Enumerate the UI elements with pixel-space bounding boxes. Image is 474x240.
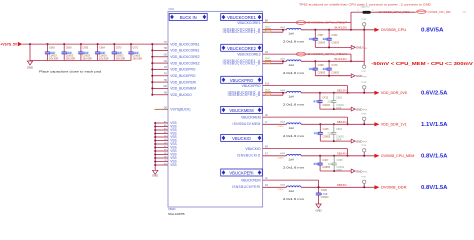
svg-text:TP57: TP57: [361, 71, 367, 73]
header VBUCKPRO: [221, 76, 263, 83]
wire cap ground rail: [320, 108, 349, 110]
svg-text:K7: K7: [265, 153, 269, 156]
pin E5 VSS: [154, 146, 176, 150]
svg-text:OV0008_CPU_FB1N: OV0008_CPU_FB1N: [307, 53, 347, 56]
svg-text:TP56: TP56: [361, 19, 367, 21]
svg-text:ISNSBUCKCORE2_B: ISNSBUCKCORE2_B: [223, 62, 261, 66]
svg-text:TP57: TP57: [363, 76, 367, 78]
svg-text:TP59: TP59: [361, 114, 367, 116]
node SB13N: [337, 120, 347, 124]
node BUK12N: [334, 57, 346, 61]
wire inductor output: [301, 155, 374, 157]
pin name ISNSBUCKCORE2_B: [223, 62, 261, 66]
wire VBUCKIO sense: [263, 146, 348, 149]
svg-text:VSYS(BUCK): VSYS(BUCK): [170, 108, 190, 112]
capacitor C468: [309, 60, 326, 75]
svg-text:2.0x1.6 mm: 2.0x1.6 mm: [283, 166, 305, 170]
test point TP61: [361, 177, 367, 189]
wire phase join: [363, 30, 365, 62]
svg-text:OV0008_CPU_FB1P: OV0008_CPU_FB1P: [307, 22, 348, 25]
svg-text:VBUCKPRO: VBUCKPRO: [242, 84, 261, 88]
resistor shunt R611: [265, 26, 271, 32]
wire to inductor: [282, 60, 287, 62]
capacitor C665: [78, 43, 92, 61]
svg-text:SB15N: SB15N: [337, 183, 347, 187]
capacitor C864: [328, 123, 345, 141]
capacitor C669: [61, 43, 75, 61]
node SB12N: [337, 88, 347, 92]
svg-text:C665: C665: [82, 47, 88, 50]
svg-text:2.0x1.6 mm: 2.0x1.6 mm: [283, 40, 305, 44]
wire ISNSBUCKPERI: [263, 184, 287, 187]
svg-text:VDD_BUCKPERI: VDD_BUCKPERI: [170, 80, 196, 84]
svg-text:22uF: 22uF: [323, 67, 329, 71]
svg-text:U601: U601: [168, 8, 174, 11]
wire inductor output: [301, 92, 374, 94]
svg-text:VBUCKCORE2: VBUCKCORE2: [227, 46, 257, 51]
header VBUCKMEM: [221, 106, 263, 113]
node BUK12N: [334, 25, 346, 29]
pin C5 VSS: [154, 135, 176, 139]
svg-text:2: 2: [372, 10, 374, 12]
pin H8 VDD_BUCKCORE1: [151, 47, 199, 52]
svg-text:0.8: 0.8: [463, 11, 467, 14]
svg-text:VBUCKCORE1: VBUCKCORE1: [227, 15, 257, 20]
svg-text:E10: E10: [265, 83, 270, 86]
wire cap ground lead: [318, 200, 320, 205]
svg-text:L2016: L2016: [278, 189, 285, 191]
pin G9 VDD_BUCKCORE2: [151, 60, 199, 65]
svg-text:1uH: 1uH: [289, 189, 294, 193]
wire ISNSBUCKIO: [263, 153, 287, 156]
wire cap ground rail: [315, 75, 349, 77]
pin name VBUCKCORE1: [237, 21, 260, 25]
svg-text:2.0x1.6 mm: 2.0x1.6 mm: [283, 71, 305, 75]
svg-text:VBUCKIO: VBUCKIO: [232, 136, 252, 141]
inductor L606 1uH: [280, 185, 305, 201]
inductor L601 1uH: [280, 27, 305, 43]
wire ISNSBUCKCORE1_A: [263, 29, 283, 31]
inductor L605 1uH: [280, 153, 305, 169]
pin H7 VDD_BUCKCORE1: [151, 41, 199, 46]
pin F5 VSS: [154, 149, 176, 153]
svg-text:1uH: 1uH: [289, 157, 294, 161]
svg-text:SB14N: SB14N: [337, 151, 347, 155]
wire to inductor: [282, 29, 287, 31]
wire cap ground rail: [315, 46, 349, 48]
svg-text:L2016: L2016: [278, 157, 285, 159]
svg-text:1uH: 1uH: [289, 126, 294, 130]
pin name VBUCKPRO: [242, 84, 261, 88]
svg-text:1uH: 1uH: [289, 94, 294, 98]
svg-text:R611: R611: [265, 26, 271, 28]
wire sense join vertical: [318, 180, 320, 188]
wire sense join vertical: [347, 149, 349, 157]
svg-text:OV0008_CPU_MEM: OV0008_CPU_MEM: [381, 154, 415, 158]
svg-text:C0603: C0603: [321, 195, 329, 199]
svg-text:VBUCKCORE2: VBUCKCORE2: [237, 52, 260, 56]
svg-text:C660: C660: [49, 47, 55, 50]
pin name ISNSBUCKIO: [237, 154, 261, 158]
pin M6 VDD_BUCKMEM: [151, 85, 196, 90]
pin G5 VSS: [154, 153, 176, 157]
svg-text:TP58: TP58: [363, 110, 367, 112]
node VDD_DDR_1V1 output arrow: [374, 122, 447, 128]
capacitor C664: [94, 43, 108, 61]
svg-text:L602: L602: [280, 59, 286, 61]
capacitor C467: [309, 29, 326, 48]
svg-text:GND: GND: [27, 65, 33, 69]
test point TP58: [361, 82, 367, 94]
svg-text:+VSYS_5V: +VSYS_5V: [0, 43, 17, 47]
svg-text:VSS: VSS: [170, 163, 176, 167]
svg-text:TP60: TP60: [363, 172, 367, 174]
svg-text:OV0008_CPU_FB2: OV0008_CPU_FB2: [379, 10, 411, 14]
ground: [349, 107, 367, 112]
note place capacitors: [39, 70, 101, 74]
svg-text:OV0008_CPU: OV0008_CPU: [381, 28, 407, 32]
svg-text:2.0x1.6 mm: 2.0x1.6 mm: [283, 134, 305, 138]
svg-text:22uF: 22uF: [323, 37, 329, 41]
svg-text:VBUCKPRO: VBUCKPRO: [230, 78, 254, 83]
inductor footprint label: [278, 126, 285, 128]
pin H6 VDD_BUCKPERI: [151, 79, 196, 84]
pin name ISNSBUCKPRO_A: [228, 90, 261, 94]
pin name ISNSBUCKCORE1_A: [223, 27, 261, 31]
header VBUCKIO: [221, 134, 263, 141]
inductor L603 1uH: [280, 90, 305, 106]
svg-text:SKA-100iTB: SKA-100iTB: [168, 212, 185, 216]
svg-text:SB13N: SB13N: [337, 120, 347, 124]
svg-text:C0603: C0603: [331, 40, 339, 44]
node SB14N: [337, 151, 347, 155]
svg-text:L603: L603: [280, 90, 286, 92]
svg-text:VDD_DDR_0V6: VDD_DDR_0V6: [381, 91, 407, 95]
pin name ISNSBUCKMEM: [232, 122, 260, 126]
svg-text:C670: C670: [116, 47, 122, 50]
pin D6 VSYS(BUCK): [154, 106, 191, 111]
wire FB2: [375, 11, 416, 13]
svg-text:H8: H8: [164, 47, 168, 50]
svg-text:TP60: TP60: [361, 145, 367, 147]
ground: [349, 46, 367, 51]
wire VBUCKPERI sense: [263, 177, 319, 180]
svg-text:L604: L604: [280, 122, 286, 124]
wire +VSYS_5V rail: [22, 43, 152, 45]
svg-text:VDD_BUCKMEM: VDD_BUCKMEM: [170, 87, 196, 91]
test point TP59: [361, 114, 367, 126]
pin K5 VSS: [154, 163, 176, 167]
svg-text:N6: N6: [164, 92, 168, 95]
svg-text:1.1V/1.5A: 1.1V/1.5A: [421, 122, 448, 128]
svg-text:L6067-T3: L6067-T3: [361, 6, 370, 8]
pin J5 VSS: [154, 160, 176, 164]
svg-text:C863: C863: [336, 96, 343, 99]
U601 refdes: [168, 8, 174, 11]
svg-text:ISNSBUCKIO: ISNSBUCKIO: [237, 154, 261, 158]
header VBUCKCORE1: [221, 14, 263, 21]
pin name ISNSBUCKPERI: [232, 185, 261, 189]
wire cap ground rail: [320, 170, 349, 172]
U601 part number: [168, 212, 185, 216]
svg-text:H7: H7: [164, 41, 168, 44]
svg-text:0.8V/1.5A: 0.8V/1.5A: [421, 154, 448, 160]
power flag +VSYS_5V: [0, 42, 22, 47]
node OV0008_DDR output arrow: [374, 185, 447, 191]
capacitor C462: [322, 29, 339, 48]
svg-text:C407: C407: [322, 159, 329, 162]
svg-text:2.0x1.6 mm: 2.0x1.6 mm: [283, 197, 305, 201]
svg-text:TP59: TP59: [363, 142, 367, 144]
wire VSS ground bus: [154, 123, 156, 170]
wire left supply bus: [151, 44, 153, 95]
node OV0008_CPU_FB1N: [296, 52, 347, 56]
capacitor C407: [313, 155, 330, 171]
wire ISNSBUCKMEM: [263, 121, 287, 124]
svg-text:-50mV < CPU_MEM - CPU <= 300mV: -50mV < CPU_MEM - CPU <= 300mV: [371, 61, 473, 67]
svg-text:22uF: 22uF: [328, 131, 334, 135]
svg-text:C412: C412: [322, 96, 329, 99]
svg-text:R613: R613: [265, 89, 271, 91]
svg-text:VDD_BUCKPRO: VDD_BUCKPRO: [170, 68, 196, 72]
capacitor C671: [128, 43, 142, 61]
svg-text:ISNSBUCKCORE1_B: ISNSBUCKCORE1_B: [223, 30, 261, 34]
svg-text:1uH: 1uH: [289, 63, 294, 67]
svg-text:ISNSBUCKPRO_B: ISNSBUCKPRO_B: [228, 93, 261, 97]
header BUCK IN: [169, 13, 207, 20]
pin H5 VSS: [154, 156, 176, 160]
pin name ISNSBUCKCORE1_B: [223, 30, 261, 34]
capacitor C412: [313, 92, 330, 109]
pin name VBUCKPERI: [241, 178, 261, 182]
svg-text:1uH: 1uH: [289, 31, 294, 35]
ground: [349, 74, 367, 79]
svg-text:16V,X5R: 16V,X5R: [133, 58, 143, 61]
svg-text:C468: C468: [318, 64, 325, 67]
svg-text:BUK12N: BUK12N: [334, 25, 346, 29]
svg-text:G8: G8: [164, 54, 168, 57]
svg-text:GND: GND: [356, 74, 362, 78]
ground VSS: [152, 170, 158, 177]
pin F9 VDD_BUCKPRO: [151, 73, 196, 78]
capacitor C868: [328, 155, 345, 172]
test point TP60: [361, 145, 367, 157]
node OV0008_CPU_FB1P: [296, 21, 348, 25]
wire sense join vertical: [350, 54, 352, 62]
svg-text:OV0008_DDR: OV0008_DDR: [381, 186, 407, 190]
svg-text:R612: R612: [265, 58, 271, 60]
svg-text:N1: N1: [265, 184, 269, 187]
wire VBUCKCORE2 sense: [263, 51, 351, 54]
wire inductor output: [301, 29, 374, 31]
svg-text:VBUCKPERI: VBUCKPERI: [241, 178, 261, 182]
svg-text:GND: GND: [356, 46, 362, 50]
svg-text:C470: C470: [331, 64, 338, 67]
pin name VBUCKIO: [245, 147, 261, 151]
wire ISNSBUCKPRO_A: [263, 92, 283, 94]
node OV0008_CPU_MEM output arrow: [374, 154, 447, 160]
svg-text:OV0008_CPU_FB2: OV0008_CPU_FB2: [428, 10, 452, 14]
wire cap ground rail: [320, 140, 349, 142]
capacitor C428: [315, 186, 329, 199]
pin name VBUCKMEM: [241, 115, 261, 119]
pin B6 VSS: [154, 132, 176, 136]
pin N6 VDD_BUCKIO: [151, 92, 192, 97]
svg-text:GND: GND: [356, 107, 362, 111]
svg-text:VDD_BUCKCORE1: VDD_BUCKCORE1: [170, 49, 199, 53]
capacitor C670: [111, 43, 125, 61]
pin D5 VSS: [154, 142, 176, 146]
svg-text:VDD_DDR_1V1: VDD_DDR_1V1: [381, 123, 407, 127]
pin F8 VDD_BUCKPRO: [151, 66, 196, 71]
svg-text:G9: G9: [164, 60, 168, 63]
pin name VBUCKCORE2: [237, 52, 260, 56]
svg-text:22uF: 22uF: [328, 100, 334, 104]
wire inductor output: [301, 186, 374, 188]
test point TP56: [361, 19, 367, 31]
svg-text:Place capacitors close to each: Place capacitors close to each pad: [39, 70, 101, 74]
pin name ISNSBUCKCORE2_A: [223, 59, 261, 63]
svg-text:GND: GND: [152, 174, 158, 178]
pin A6 VSS: [154, 124, 176, 129]
svg-text:GND: GND: [356, 169, 362, 173]
svg-text:0.6V/2.5A: 0.6V/2.5A: [421, 91, 448, 97]
svg-text:4.7uF: 4.7uF: [314, 100, 321, 104]
test point TP57: [361, 61, 367, 73]
svg-text:47uF: 47uF: [314, 131, 320, 135]
svg-text:ISNSBUCKPERI: ISNSBUCKPERI: [232, 185, 261, 189]
svg-text:TP62 at placed on middle than: TP62 at placed on middle than CPU pads 1…: [299, 2, 431, 6]
svg-text:VDD_BUCKPRO: VDD_BUCKPRO: [170, 74, 196, 78]
wire ISNSBUCKCORE2_B: [263, 61, 283, 64]
wire sense join vertical: [347, 117, 349, 125]
wire ISNSBUCKCORE2_A: [263, 60, 283, 62]
capacitor C415: [314, 123, 331, 141]
svg-text:47uF: 47uF: [314, 162, 320, 166]
svg-text:22uF: 22uF: [309, 37, 315, 41]
svg-text:TP61: TP61: [361, 177, 367, 179]
svg-text:SB12N: SB12N: [337, 88, 347, 92]
svg-text:M6: M6: [163, 85, 167, 88]
ground: [27, 61, 33, 69]
svg-text:GND: GND: [356, 139, 362, 143]
svg-text:C864: C864: [336, 128, 343, 131]
svg-text:VDD_BUCKCORE2: VDD_BUCKCORE2: [170, 61, 199, 65]
svg-text:VDD_BUCKCORE2: VDD_BUCKCORE2: [170, 55, 199, 59]
note top placement: [299, 2, 431, 6]
ground: [316, 204, 322, 213]
node SB15N: [337, 183, 347, 187]
U601 bottom refdes: [168, 207, 176, 211]
wire inductor output: [301, 123, 374, 125]
resistor shunt R613: [265, 89, 271, 95]
svg-text:TP58: TP58: [361, 82, 367, 84]
note CPU_MEM constraint: [371, 61, 473, 67]
capacitor C470: [322, 60, 339, 75]
svg-text:BUK12N: BUK12N: [334, 57, 346, 61]
svg-text:VBUCKPERI: VBUCKPERI: [229, 171, 253, 176]
wire to inductor: [282, 92, 287, 94]
svg-text:H6: H6: [164, 79, 168, 82]
capacitor C660: [44, 43, 58, 61]
resistor shunt R612: [265, 58, 271, 64]
svg-text:C664: C664: [99, 47, 105, 50]
wire VBUCKPRO sense: [263, 83, 348, 86]
svg-text:C415: C415: [323, 128, 330, 131]
pin name ISNSBUCKPRO_B: [228, 93, 261, 97]
node OV0008_CPU output arrow: [374, 28, 443, 34]
svg-text:0.8V/5A: 0.8V/5A: [421, 28, 444, 34]
svg-text:VBUCKMEM: VBUCKMEM: [229, 108, 254, 113]
svg-text:22uF: 22uF: [309, 67, 315, 71]
svg-text:VDD_BUCKIO: VDD_BUCKIO: [170, 93, 192, 97]
svg-text:F8: F8: [164, 66, 167, 69]
ground: [349, 169, 367, 174]
inductor L604 1uH: [280, 122, 305, 138]
header VBUCKPERI: [221, 169, 263, 176]
header VBUCKCORE2: [221, 44, 263, 51]
node OV0008_CPU_FB2 offpage: [416, 10, 466, 14]
svg-text:BUCK IN: BUCK IN: [180, 15, 197, 20]
pin B5 VSS: [154, 128, 176, 132]
wire inductor output: [301, 60, 364, 62]
svg-text:C669: C669: [66, 47, 72, 50]
svg-text:VBUCKCORE1: VBUCKCORE1: [237, 21, 260, 25]
svg-text:2.0x1.6 mm: 2.0x1.6 mm: [283, 103, 305, 107]
inductor footprint label: [278, 189, 285, 191]
svg-text:C462: C462: [331, 34, 338, 37]
svg-text:C467: C467: [318, 34, 325, 37]
capacitor C863: [328, 92, 345, 110]
wire FB tap vertical: [350, 12, 352, 31]
svg-text:F9: F9: [164, 73, 167, 76]
pin A5 VSS: [154, 121, 176, 126]
node VDD_DDR_0V6 output arrow: [374, 91, 447, 97]
pin G8 VDD_BUCKCORE2: [151, 54, 199, 59]
svg-text:0.8V/1.5A: 0.8V/1.5A: [421, 185, 448, 191]
svg-text:C868: C868: [337, 159, 344, 162]
svg-text:L606: L606: [280, 185, 286, 187]
svg-text:C671: C671: [133, 47, 139, 50]
svg-text:C0603: C0603: [331, 70, 339, 74]
resistor R606 FB jumper: [357, 6, 374, 13]
svg-text:L7: L7: [265, 121, 268, 124]
svg-text:C428: C428: [321, 189, 328, 192]
inductor L602 1uH: [280, 59, 305, 75]
wire VBUCKMEM sense: [263, 114, 348, 117]
wire VBUCKCORE1 sense: [263, 20, 351, 23]
svg-text:L2016: L2016: [278, 126, 285, 128]
wire ground drop: [29, 43, 31, 60]
ground: [349, 139, 367, 144]
wire sense join vertical: [347, 86, 349, 94]
svg-text:TP56: TP56: [363, 48, 367, 50]
svg-text:ISNSBUCKMEM: ISNSBUCKMEM: [232, 122, 260, 126]
svg-text:1: 1: [357, 10, 359, 12]
wire ISNSBUCKCORE1_B: [263, 30, 283, 33]
svg-text:GND: GND: [316, 209, 322, 213]
svg-text:U6001: U6001: [168, 207, 176, 211]
pin C6 VSS: [154, 139, 176, 143]
svg-text:L605: L605: [280, 153, 286, 155]
wire FB top: [351, 11, 359, 13]
wire capacitor ground bus: [30, 60, 131, 62]
svg-text:L601: L601: [280, 27, 286, 29]
inductor footprint label: [278, 157, 285, 159]
wire ISNSBUCKPRO_B: [263, 93, 283, 96]
svg-text:VDD_BUCKCORE1: VDD_BUCKCORE1: [170, 42, 199, 46]
node OV0008_CPU_FB2 inline: [379, 10, 411, 14]
